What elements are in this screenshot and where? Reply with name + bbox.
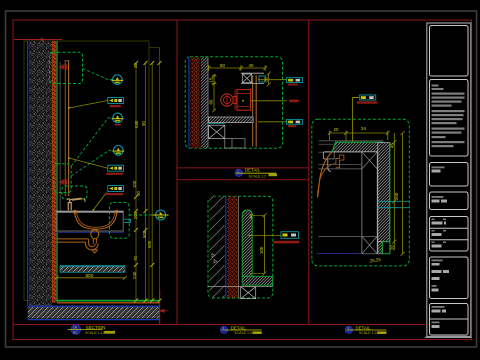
leader from basin to tag3 (93, 193, 106, 210)
bottom double box (430, 304, 469, 336)
svg-text:70: 70 (133, 256, 138, 261)
basin rim left (73, 210, 76, 213)
svg-text:SCALE 1:2: SCALE 1:2 (359, 331, 377, 335)
nose profile white (323, 152, 331, 172)
dim line top (207, 65, 267, 71)
leader box B to marker 2 (71, 118, 112, 166)
svg-text:90: 90 (136, 191, 141, 196)
X cross bottom (362, 236, 377, 253)
logo box (430, 26, 469, 77)
leader mirror to tag1 (69, 101, 108, 109)
leader mirror to tag2 (69, 158, 108, 168)
green edge of board (389, 142, 391, 242)
mid red note (289, 100, 299, 103)
cabinet mid hline (318, 236, 377, 238)
wood stud line 1 (252, 75, 254, 146)
leader box B to marker 3 (71, 150, 113, 176)
svg-text:200: 200 (394, 192, 399, 200)
counter callout dashed box C (109, 202, 129, 238)
svg-text:690: 690 (134, 120, 139, 128)
remark box (430, 80, 469, 157)
cabinet left vline (361, 152, 363, 254)
basin outer arc (75, 212, 118, 229)
level marker circle mid (153, 210, 169, 220)
chain mid ticks (134, 195, 162, 303)
svg-text:240: 240 (132, 271, 137, 279)
svg-text:34: 34 (361, 126, 366, 131)
trap tail (92, 250, 97, 253)
bracket inner lines (237, 94, 251, 107)
dim chain line 2 (145, 63, 147, 301)
X cross top (362, 152, 377, 169)
label above (360, 95, 376, 100)
red section-cut line right (159, 290, 161, 325)
svg-text:20: 20 (264, 77, 269, 82)
teal bracket right of counter (124, 219, 131, 222)
title bubble (235, 169, 242, 176)
pipe stem (227, 94, 237, 106)
floor blue top line (28, 305, 160, 307)
svg-text:20: 20 (334, 127, 339, 132)
red title band bottom line (mid detail) (177, 179, 309, 181)
wood stud line 2 (255, 75, 257, 146)
dim chain line 1 (135, 63, 137, 301)
panel gray edge line (59, 62, 61, 211)
wall blue edge line (27, 41, 29, 306)
svg-text:DETAIL: DETAIL (231, 325, 247, 330)
red mortar band (191, 57, 200, 148)
basin inner arc (77, 212, 116, 227)
floor strip below (208, 287, 273, 299)
label red note (357, 101, 378, 103)
moulding bottom tick (317, 191, 319, 198)
dim 600 line (55, 276, 128, 280)
right dim vline 1 (392, 131, 404, 256)
mirror brown line 2 (68, 61, 70, 196)
bottom gray line (362, 253, 383, 255)
leader to label mid (251, 100, 287, 102)
slab green outline (332, 142, 383, 151)
counter slab hatch (beveled left) (332, 143, 383, 152)
svg-text:40: 40 (249, 214, 254, 219)
lower X box (209, 124, 225, 139)
floor blue bottom line (28, 319, 160, 321)
bracket red box (237, 90, 251, 111)
bottom blue line (317, 252, 362, 254)
floor green finish line (57, 300, 160, 302)
ledge hatch band (209, 117, 254, 123)
red divider vertical middle-right (308, 20, 310, 325)
svg-text:20: 20 (390, 245, 395, 250)
drain bulb (91, 229, 99, 238)
svg-text:600: 600 (147, 240, 152, 248)
dashed green leader across from wall (57, 214, 109, 216)
red title band top line (mid detail) (177, 167, 309, 169)
viewport border olive (24, 41, 149, 301)
lower shelf box (225, 139, 245, 148)
nose inner step (328, 152, 334, 159)
blue edge line (225, 197, 227, 298)
section marker circle 2 (112, 113, 124, 125)
floor orange line (57, 302, 160, 304)
remark text lines (432, 85, 465, 148)
DETAIL2 bubble (220, 326, 227, 333)
wall green finish line (56, 41, 58, 302)
counter top line (56, 211, 124, 213)
tile face line (207, 57, 209, 148)
section marker circle 1 (111, 75, 123, 85)
tag red note (273, 241, 299, 244)
svg-text:SCALE 1:10: SCALE 1:10 (85, 331, 105, 335)
pipe red circle (221, 94, 233, 106)
right dim labels (390, 143, 399, 250)
p-trap (57, 238, 99, 250)
leader box A to marker 1 (83, 69, 113, 80)
shelf top line (60, 265, 125, 267)
red mortar band (227, 197, 237, 298)
svg-text:80: 80 (220, 63, 225, 68)
svg-text:SCALE 1:2: SCALE 1:2 (234, 331, 252, 335)
red cut arrow (160, 309, 168, 312)
green dashed callout border (312, 119, 410, 266)
svg-text:30: 30 (133, 63, 138, 68)
skirting hatch vertical (242, 210, 252, 276)
dim 15 vertical (212, 74, 217, 112)
callout dashed box B (54, 164, 71, 193)
green dashed callout border (185, 57, 282, 149)
top bracket lines (241, 73, 264, 83)
leader to label1 (258, 79, 287, 81)
hatch board lower sliver (378, 242, 383, 254)
moulding orange outer curve (318, 152, 332, 197)
ceiling red line (14, 39, 62, 41)
svg-text:100: 100 (259, 246, 264, 254)
leader box C to level marker (129, 214, 155, 216)
counter under blue line (56, 231, 124, 233)
top dim line (328, 131, 390, 141)
svg-text:1A: 1A (73, 326, 78, 330)
sparse hatch band (210, 197, 225, 298)
svg-text:SC: SC (73, 330, 78, 334)
SECTION bubble (71, 325, 81, 335)
green step outline (382, 242, 390, 254)
svg-text:15: 15 (209, 77, 214, 82)
teal tick lines right (378, 200, 410, 202)
title block outer border (427, 23, 471, 337)
leader dot basin (93, 209, 95, 211)
rotated dim labels (132, 63, 152, 279)
white line above bottom red right (425, 336, 472, 338)
svg-text:500: 500 (142, 230, 147, 238)
mirror brown line 1 (64, 61, 66, 196)
box drawing name (430, 192, 469, 210)
svg-text:60: 60 (209, 99, 214, 104)
leader to tag (250, 235, 281, 237)
svg-text:100: 100 (132, 180, 137, 188)
blocking X box (242, 74, 251, 83)
faucet (67, 198, 85, 210)
mid DETAIL title (235, 168, 277, 179)
svg-text:45: 45 (390, 143, 395, 148)
ceiling red arrow (35, 38, 45, 41)
shelf hatch band (60, 266, 125, 272)
red stem vertical (234, 90, 236, 111)
dim chain line 4 (159, 48, 161, 301)
skirting bottom hatch horizontal (242, 276, 272, 285)
moulding orange inner curve with step (318, 155, 344, 191)
mirror clip red mark bottom (59, 180, 65, 185)
material tag 3 (106, 186, 123, 196)
label leader elbow (353, 98, 359, 147)
dim 20 right (267, 72, 271, 87)
svg-text:SECTION: SECTION (86, 325, 106, 330)
counter body (56, 213, 123, 232)
blue edge line (188, 57, 190, 148)
label 1 tag (287, 78, 303, 86)
vertical hatch board (378, 143, 390, 242)
triple row box (430, 217, 469, 252)
DETAIL3 bubble (345, 326, 352, 333)
leader to label2 (258, 121, 287, 123)
tag box (281, 232, 299, 239)
mirror clip red mark top (59, 65, 65, 70)
slab bottom line (332, 151, 383, 153)
teal clip box (259, 76, 265, 82)
material tag 2 (106, 165, 123, 175)
cabinet right vline (376, 152, 378, 254)
viewport extension step (149, 47, 160, 49)
dim chain line 3 (151, 63, 153, 301)
faucet dashed callout box D (62, 186, 87, 199)
red bottom strip line (13, 324, 425, 326)
green dashed callout border (208, 196, 273, 298)
chain top ticks (134, 61, 162, 65)
svg-text:DETAIL: DETAIL (245, 168, 261, 173)
scale/date box (430, 257, 469, 299)
hatch triangle marks (212, 254, 217, 264)
svg-text:200: 200 (133, 211, 138, 219)
mirror top cap (65, 60, 70, 62)
wall board gray lines (318, 141, 383, 169)
svg-text:SCALE 1:2: SCALE 1:2 (249, 174, 267, 178)
svg-text:600: 600 (86, 273, 94, 279)
label 2 tag (287, 119, 303, 127)
svg-text:40: 40 (249, 63, 254, 68)
tile hatch band (201, 57, 208, 148)
material tag 1 (108, 98, 124, 108)
dim 100 vline (250, 213, 267, 275)
svg-text:DETAIL: DETAIL (356, 325, 372, 330)
basin rim right (115, 210, 118, 213)
svg-text:90: 90 (141, 121, 146, 126)
callout dashed box A (50, 52, 83, 83)
wall hatch band (29, 41, 52, 306)
wall red mortar band (52, 41, 56, 303)
white face line (237, 197, 239, 298)
red divider vertical left-middle (176, 20, 178, 325)
floor slab hatch (28, 307, 160, 319)
section marker circle 3 (112, 146, 124, 156)
box project name (430, 163, 469, 187)
